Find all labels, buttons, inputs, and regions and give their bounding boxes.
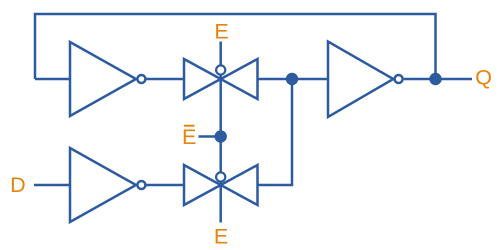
svg-text:E: E bbox=[214, 20, 228, 44]
svg-text:D: D bbox=[10, 173, 26, 197]
svg-text:E: E bbox=[182, 125, 196, 149]
svg-text:E: E bbox=[214, 225, 228, 249]
svg-text:Q: Q bbox=[475, 66, 492, 90]
